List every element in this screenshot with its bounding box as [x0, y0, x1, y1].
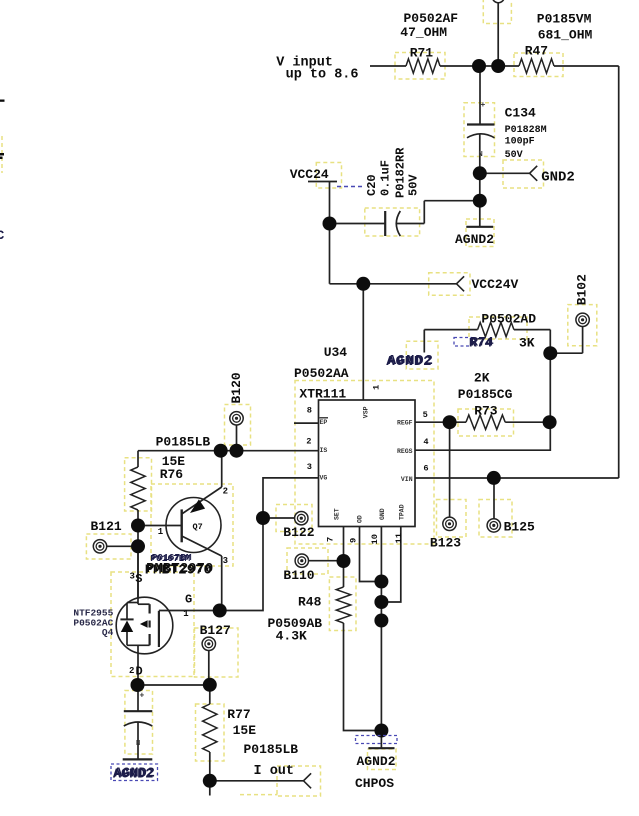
svg-text:1: 1 — [372, 385, 382, 390]
svg-text:B110: B110 — [283, 568, 314, 583]
svg-text:+: + — [140, 692, 145, 701]
svg-text:SET: SET — [333, 508, 340, 520]
svg-text:B123: B123 — [430, 536, 461, 551]
svg-text:B122: B122 — [283, 525, 314, 540]
svg-text:5: 5 — [423, 410, 428, 420]
svg-text:6: 6 — [423, 464, 428, 474]
svg-text:2: 2 — [306, 437, 311, 447]
svg-text:REGS: REGS — [397, 448, 413, 455]
svg-text:2K: 2K — [474, 371, 490, 386]
svg-text:AGND2: AGND2 — [357, 754, 396, 769]
svg-text:1: 1 — [183, 609, 189, 619]
svg-text:EP: EP — [320, 419, 328, 426]
svg-text:D: D — [136, 665, 143, 679]
svg-text:VSP: VSP — [363, 406, 370, 418]
svg-text:AGND2: AGND2 — [388, 353, 434, 369]
svg-text:9: 9 — [349, 538, 359, 543]
svg-text:S: S — [135, 572, 142, 586]
svg-text:G: G — [185, 592, 192, 606]
svg-text:7: 7 — [325, 537, 335, 542]
svg-text:B120: B120 — [229, 372, 244, 403]
svg-text:R71: R71 — [410, 45, 434, 60]
svg-text:P0502AA: P0502AA — [294, 366, 349, 381]
svg-text:P0502AD: P0502AD — [481, 312, 536, 327]
svg-text:681_OHM: 681_OHM — [538, 28, 593, 43]
svg-text:P0502AF: P0502AF — [404, 11, 459, 26]
svg-text:GND: GND — [379, 508, 386, 520]
svg-text:50V: 50V — [505, 150, 523, 161]
svg-text:XTR111: XTR111 — [299, 387, 346, 402]
svg-text:VCC24V: VCC24V — [472, 277, 519, 292]
svg-text:VCC24: VCC24 — [290, 167, 329, 182]
svg-text:2: 2 — [129, 666, 134, 676]
svg-text:P0185VM: P0185VM — [537, 11, 592, 26]
svg-text:N: N — [136, 740, 140, 748]
svg-text:B125: B125 — [504, 520, 535, 535]
svg-text:U34: U34 — [324, 345, 348, 360]
svg-text:CHPOS: CHPOS — [355, 776, 394, 791]
svg-text:100pF: 100pF — [505, 137, 535, 148]
svg-text:47_OHM: 47_OHM — [400, 25, 447, 40]
svg-text:IS: IS — [320, 447, 328, 454]
svg-text:3: 3 — [307, 462, 312, 472]
svg-text:GND2: GND2 — [541, 170, 575, 186]
svg-text:Q7: Q7 — [193, 522, 203, 532]
svg-text:AGND2: AGND2 — [114, 766, 155, 781]
svg-text:R47: R47 — [525, 44, 548, 59]
svg-text:B102: B102 — [575, 274, 590, 305]
svg-text:R74: R74 — [470, 334, 494, 349]
svg-text:R73: R73 — [474, 403, 498, 418]
svg-text:AGND2: AGND2 — [455, 232, 494, 247]
svg-text:I out: I out — [254, 764, 295, 779]
svg-text:P0185LB: P0185LB — [156, 435, 211, 450]
svg-text:VG: VG — [320, 474, 328, 481]
svg-text:15E: 15E — [233, 723, 257, 738]
svg-text:REGF: REGF — [397, 420, 413, 427]
svg-text:3K: 3K — [519, 335, 535, 350]
svg-text:P0185CG: P0185CG — [458, 387, 513, 402]
svg-text:3: 3 — [130, 572, 135, 582]
svg-text:0.1uF: 0.1uF — [379, 160, 393, 196]
svg-text:C20: C20 — [365, 174, 379, 196]
svg-text:8: 8 — [307, 406, 312, 416]
svg-text:2: 2 — [223, 487, 228, 497]
svg-text:11: 11 — [394, 533, 404, 543]
svg-text:10: 10 — [370, 534, 380, 544]
svg-text:4: 4 — [423, 437, 428, 447]
svg-text:1: 1 — [158, 527, 164, 537]
svg-text:4.3K: 4.3K — [276, 629, 307, 644]
svg-text:P0182RR: P0182RR — [394, 147, 408, 198]
svg-text:R48: R48 — [298, 595, 322, 610]
svg-text:VIN: VIN — [401, 476, 413, 483]
svg-text:N: N — [479, 151, 483, 159]
svg-text:+: + — [481, 101, 486, 110]
svg-text:C134: C134 — [505, 105, 536, 120]
svg-text:C: C — [0, 228, 5, 243]
svg-text:50V: 50V — [407, 174, 421, 196]
svg-text:B127: B127 — [200, 623, 231, 638]
svg-text:P0185LB: P0185LB — [244, 742, 299, 757]
svg-text:Q4: Q4 — [102, 627, 114, 638]
svg-text:R77: R77 — [227, 707, 250, 722]
svg-text:TPAD: TPAD — [399, 504, 406, 520]
svg-text:P01828M: P01828M — [505, 125, 547, 136]
svg-text:3: 3 — [223, 556, 228, 566]
svg-text:R76: R76 — [160, 467, 184, 482]
svg-text:OD: OD — [357, 515, 364, 523]
svg-text:PMBT2970: PMBT2970 — [146, 561, 213, 577]
svg-text:B121: B121 — [91, 519, 122, 534]
svg-text:up to 8.6: up to 8.6 — [286, 67, 359, 82]
